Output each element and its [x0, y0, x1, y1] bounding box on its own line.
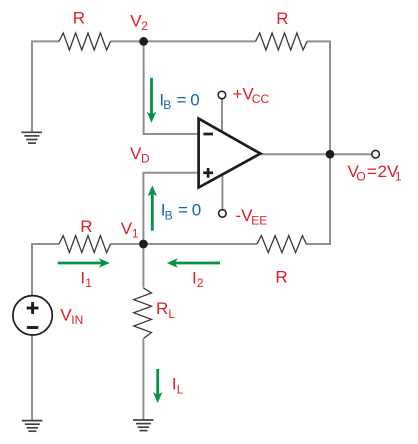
svg-text:L: L: [177, 382, 184, 396]
svg-text:=: =: [177, 91, 187, 110]
svg-text:1: 1: [395, 170, 402, 184]
svg-text:B: B: [165, 208, 173, 222]
svg-text:R: R: [73, 8, 85, 27]
svg-text:IN: IN: [71, 313, 83, 327]
svg-text:2: 2: [141, 19, 148, 33]
svg-text:0: 0: [192, 201, 201, 220]
svg-text:=: =: [178, 201, 188, 220]
svg-text:0: 0: [190, 91, 199, 110]
svg-text:CC: CC: [252, 92, 270, 106]
svg-text:R: R: [275, 267, 287, 286]
svg-text:R: R: [276, 9, 288, 28]
svg-text:R: R: [156, 299, 168, 318]
svg-text:2: 2: [197, 276, 204, 290]
svg-text:D: D: [141, 151, 150, 165]
svg-text:O: O: [356, 170, 365, 184]
svg-text:EE: EE: [251, 213, 267, 227]
svg-text:1: 1: [85, 276, 92, 290]
svg-text:L: L: [168, 307, 175, 321]
svg-text:=: =: [367, 162, 377, 181]
svg-text:R: R: [80, 217, 92, 236]
svg-text:B: B: [163, 98, 171, 112]
svg-text:1: 1: [132, 226, 139, 240]
